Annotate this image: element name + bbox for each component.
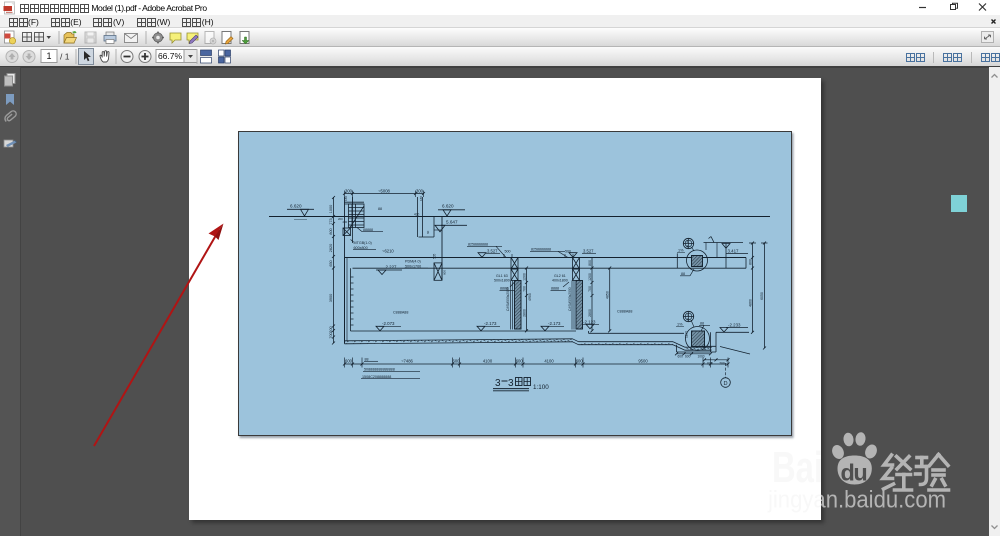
svg-text:PDM(4.0): PDM(4.0) xyxy=(405,260,421,264)
svg-text:400x1800: 400x1800 xyxy=(552,279,568,283)
svg-text:C#SM500x2000: C#SM500x2000 xyxy=(568,287,572,311)
pdf file icon xyxy=(3,1,16,15)
signature icon xyxy=(4,140,17,147)
svg-text:600x800: 600x800 xyxy=(354,246,368,250)
svg-text:-2.073: -2.073 xyxy=(382,321,395,326)
MTGB label xyxy=(354,241,372,250)
cushion spec notes xyxy=(362,368,395,379)
svg-text:1000: 1000 xyxy=(697,355,704,359)
svg-text:2800: 2800 xyxy=(523,309,527,317)
svg-text:3.527: 3.527 xyxy=(583,249,594,254)
level marker 6.620 left xyxy=(287,204,314,220)
page number box xyxy=(41,50,57,63)
comment bubble xyxy=(170,33,181,43)
svg-text:700: 700 xyxy=(523,286,527,292)
svg-text:9500: 9500 xyxy=(638,359,648,364)
structural section drawing xyxy=(238,131,792,436)
floor level markers xyxy=(376,321,401,331)
svg-text:8: 8 xyxy=(687,317,689,321)
svg-text:8888: 8888 xyxy=(551,287,559,291)
doc with pen xyxy=(222,32,233,45)
small close x on menubar right xyxy=(990,18,998,26)
entrance top dimension xyxy=(343,188,425,204)
svg-text:600: 600 xyxy=(453,359,461,364)
svg-text:800: 800 xyxy=(588,260,592,266)
pages icon xyxy=(5,74,16,87)
right dimension verticals xyxy=(749,242,768,350)
svg-text:505: 505 xyxy=(433,253,437,259)
save (disabled) xyxy=(85,32,96,43)
print xyxy=(104,32,116,44)
svg-text:600: 600 xyxy=(345,359,353,364)
svg-text:5.647: 5.647 xyxy=(446,220,458,225)
roof opening marker 2 xyxy=(530,248,596,258)
svg-text:D: D xyxy=(723,381,727,387)
svg-text:88: 88 xyxy=(681,272,685,276)
svg-text:3.527: 3.527 xyxy=(487,249,498,254)
svg-text:-2.173: -2.173 xyxy=(484,321,497,326)
svg-text:1200: 1200 xyxy=(588,273,592,281)
bubble with pen xyxy=(187,33,198,44)
svg-text:200: 200 xyxy=(329,326,333,332)
Baidu Jingyan watermark xyxy=(760,425,1000,525)
svg-text:1:100: 1:100 xyxy=(533,384,549,391)
interior dimension verticals xyxy=(523,267,533,333)
svg-text:~7486: ~7486 xyxy=(401,359,413,364)
four page icon xyxy=(219,50,231,63)
svg-text:600: 600 xyxy=(576,359,584,364)
right step outline xyxy=(675,332,750,365)
teal square annotation xyxy=(951,195,967,212)
interior wall A with lintel xyxy=(506,258,521,330)
left wall xyxy=(344,258,346,344)
doc with green arrow xyxy=(240,32,249,45)
bottom slab with cushion strips xyxy=(345,339,712,350)
bottom dimension chain xyxy=(343,358,730,368)
right text buttons 工具 注释 共享 xyxy=(905,52,1000,63)
svg-text:600: 600 xyxy=(443,270,447,275)
detail callout top xyxy=(677,238,708,276)
select tool pressed xyxy=(79,49,94,65)
interior floor line xyxy=(351,330,577,332)
svg-text:800: 800 xyxy=(749,259,753,265)
left dimension chain xyxy=(329,196,335,345)
zoom box xyxy=(156,50,184,63)
svg-text:500x1700: 500x1700 xyxy=(405,264,421,268)
hatched anchor box right xyxy=(433,253,447,280)
zoom out xyxy=(121,51,133,63)
svg-text:66.7%: 66.7% xyxy=(158,51,183,61)
svg-text:1508C208888888: 1508C208888888 xyxy=(362,375,391,379)
svg-text:4: 4 xyxy=(687,313,689,317)
toolbar row2 icons xyxy=(0,47,240,66)
entrance structure with stairs xyxy=(338,197,442,280)
2.227 level xyxy=(376,265,402,275)
svg-text:88: 88 xyxy=(365,358,369,362)
svg-text:~5008: ~5008 xyxy=(378,188,390,193)
email xyxy=(125,34,138,43)
roof opening marker 1 xyxy=(467,243,512,258)
svg-text:3: 3 xyxy=(495,378,501,389)
svg-text:2.227: 2.227 xyxy=(386,265,398,270)
toolbar row 2 xyxy=(0,47,1000,67)
title bar xyxy=(0,0,1000,15)
detail callout bottom xyxy=(676,311,710,350)
svg-text:C888A88: C888A88 xyxy=(393,311,408,315)
svg-text:-2.233: -2.233 xyxy=(728,323,741,328)
hatched anchor box left xyxy=(343,228,351,236)
gear xyxy=(152,32,164,44)
svg-text:4100: 4100 xyxy=(544,359,554,364)
svg-text:300: 300 xyxy=(416,188,424,193)
road surface note xyxy=(364,358,378,362)
svg-text:500: 500 xyxy=(505,250,511,254)
open folder xyxy=(64,31,77,43)
svg-text:773: 773 xyxy=(329,218,333,224)
svg-text:6.620: 6.620 xyxy=(442,204,454,209)
PDM label xyxy=(405,260,421,269)
svg-text:1: 1 xyxy=(46,51,51,61)
svg-text:8888: 8888 xyxy=(500,287,508,291)
hand tool xyxy=(100,51,109,62)
svg-text:300: 300 xyxy=(345,188,353,193)
svg-text:4860: 4860 xyxy=(749,299,753,307)
station roof slab xyxy=(345,257,747,259)
svg-text:800: 800 xyxy=(329,228,333,234)
scrollbar xyxy=(989,67,1000,536)
grid bubble D xyxy=(721,363,731,387)
create button icon xyxy=(5,31,16,44)
3.417 level xyxy=(704,237,749,269)
toolbar row 1 xyxy=(0,28,1000,47)
svg-text:200: 200 xyxy=(343,220,348,224)
svg-text:3: 3 xyxy=(508,378,514,389)
blue drawing panel xyxy=(238,131,792,436)
svg-text:/ 1: / 1 xyxy=(60,52,70,62)
svg-text:-2.173: -2.173 xyxy=(548,321,561,326)
roof edge line near callout xyxy=(676,253,678,268)
svg-text:508888888888888: 508888888888888 xyxy=(364,368,395,372)
paperclip icon xyxy=(5,111,16,122)
wall B labels xyxy=(551,274,568,291)
bookmark icon xyxy=(6,94,14,105)
svg-text:88: 88 xyxy=(700,322,704,326)
toolbar right: expand button xyxy=(981,31,994,43)
svg-text:4850: 4850 xyxy=(606,291,610,299)
svg-text:2800: 2800 xyxy=(588,309,592,317)
svg-text:500x1800: 500x1800 xyxy=(494,279,510,283)
svg-text:4: 4 xyxy=(687,240,689,244)
svg-text:6050: 6050 xyxy=(760,292,764,300)
svg-text:3900: 3900 xyxy=(329,294,333,302)
svg-text:1200: 1200 xyxy=(523,273,527,281)
zoom in xyxy=(139,51,151,63)
svg-text:GL1 63: GL1 63 xyxy=(496,274,508,278)
svg-text:1%: 1% xyxy=(678,249,684,253)
svg-text:-2.123: -2.123 xyxy=(583,319,596,324)
svg-text:600: 600 xyxy=(685,355,691,359)
red arrow annotation xyxy=(80,210,240,460)
interior wall B with lintel xyxy=(568,258,583,330)
svg-text:1000: 1000 xyxy=(329,205,333,213)
left sidebar xyxy=(0,67,21,536)
section title 3-3 xyxy=(493,378,549,392)
svg-text:C888A88: C888A88 xyxy=(617,310,632,314)
menu bar xyxy=(0,15,1000,28)
svg-text:~6210: ~6210 xyxy=(382,249,394,254)
svg-text:600: 600 xyxy=(678,355,684,359)
doc with x (disabled) xyxy=(205,32,216,45)
svg-text:88888: 88888 xyxy=(363,228,373,232)
svg-text:GL2 61: GL2 61 xyxy=(554,274,566,278)
title text xyxy=(19,2,207,14)
svg-text:8258888888: 8258888888 xyxy=(531,248,551,252)
svg-text:700: 700 xyxy=(588,286,592,292)
toolbar row1 icons xyxy=(0,28,260,47)
svg-text:88: 88 xyxy=(378,207,382,211)
wall A labels xyxy=(494,274,510,291)
up arrow disabled xyxy=(6,51,18,63)
ground line xyxy=(269,216,770,218)
window controls xyxy=(910,0,1000,15)
svg-text:2820: 2820 xyxy=(329,244,333,252)
svg-text:3.417: 3.417 xyxy=(728,249,740,254)
down arrow disabled xyxy=(23,51,35,63)
svg-text:430: 430 xyxy=(414,213,420,217)
white page xyxy=(189,78,821,520)
svg-text:500: 500 xyxy=(565,250,571,254)
svg-text:4900: 4900 xyxy=(528,293,532,301)
level marker 5.647 xyxy=(435,220,467,232)
level marker 6.620 right xyxy=(438,204,465,217)
svg-text:650: 650 xyxy=(329,260,333,266)
svg-text:4100: 4100 xyxy=(483,359,493,364)
svg-text:6.620: 6.620 xyxy=(290,204,302,209)
svg-text:8258888888: 8258888888 xyxy=(468,243,488,247)
scroll mode icon xyxy=(201,50,212,63)
svg-text:60: 60 xyxy=(426,230,430,234)
svg-text:600: 600 xyxy=(516,359,524,364)
svg-text:1%: 1% xyxy=(677,323,683,327)
-2.233 level xyxy=(716,323,749,333)
svg-text:700: 700 xyxy=(329,332,333,338)
svg-text:MTGB(1.0): MTGB(1.0) xyxy=(354,241,372,245)
svg-text:1190: 1190 xyxy=(685,331,689,338)
svg-text:8: 8 xyxy=(687,244,689,248)
